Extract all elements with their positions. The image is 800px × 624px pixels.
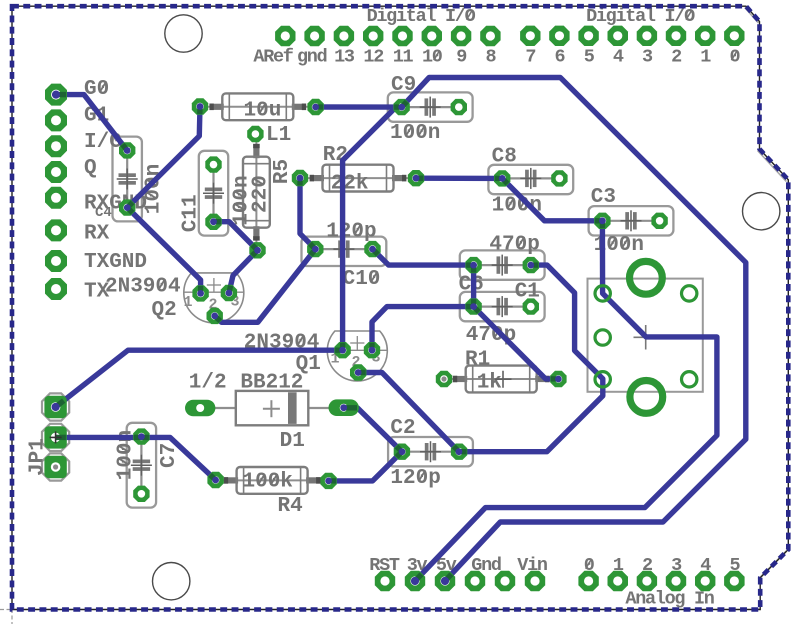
svg-text:8: 8 [485,47,496,68]
pad R5 bottom [249,242,265,258]
svg-text:C3: C3 [591,186,616,209]
wire C10 right to C6 left [373,249,474,265]
wire R2 left to C10 left [300,178,315,249]
svg-text:C11: C11 [180,194,203,232]
svg-text:9: 9 [456,47,466,68]
pads Q2 [192,285,208,301]
wire G0 to C5 top [56,95,127,151]
svg-text:6: 6 [555,47,566,68]
svg-text:2N3904: 2N3904 [105,276,181,299]
svg-text:Q2: Q2 [152,299,177,322]
svg-text:C4: C4 [95,205,112,221]
svg-text:100n: 100n [390,122,440,145]
origin marker bottom-left [0,596,25,624]
pad L1 / R5 top [247,126,263,142]
mounting hole bottom-left [153,563,190,600]
resistor R4 body [216,467,329,494]
svg-text:R5: R5 [271,159,294,184]
pads D1 (oval) [185,400,215,417]
wire Q2 pin2 to C10 left [215,249,316,322]
svg-text:1/2: 1/2 [189,371,227,394]
svg-text:Analog In: Analog In [625,589,713,610]
mounting hole top-left [165,15,202,52]
svg-text:5: 5 [584,47,595,68]
svg-text:C10: C10 [343,268,381,291]
pads C6 [465,257,481,273]
wire JP1 pin1 to Q1 pin1 [56,350,343,407]
svg-text:R4: R4 [278,495,303,518]
svg-text:D1: D1 [280,430,305,453]
svg-text:ARef: ARef [253,47,293,68]
wire R2 right to C8 left [416,175,502,181]
pads C2 [394,444,410,460]
pads C8 [494,170,510,186]
pads C10 [307,241,323,257]
wire C11 bottom to R5 bottom [214,222,258,251]
wire C6 right via trimmer pin to C2 right [459,265,603,452]
svg-text:Digital I/O: Digital I/O [586,6,695,27]
capacitor C6 outline [460,250,545,279]
svg-text:C2: C2 [390,417,415,440]
capacitor C11 outline [199,151,228,236]
wire C8 left to C3 left [502,178,602,220]
pads C9 [393,99,409,115]
svg-text:gnd: gnd [297,47,327,68]
svg-text:470p: 470p [489,234,539,257]
header pads analog row [578,571,598,591]
svg-text:3: 3 [642,47,653,68]
transistor Q1 outline [327,331,387,381]
left column pads G0-TX [45,84,67,106]
capacitor C1 outline [460,292,545,321]
connector JP1 outlines [42,393,69,420]
pads 10u [192,98,208,114]
svg-text:1: 1 [184,294,193,311]
svg-text:120p: 120p [326,221,376,244]
svg-text:0: 0 [729,47,740,68]
svg-text:10: 10 [422,47,443,68]
wire D1 right to C2 left [344,408,402,452]
mounting hole right [743,193,780,230]
gray drill dots [441,376,446,381]
svg-text:120p: 120p [390,467,440,490]
header pads Digital IO right group [520,26,540,46]
drill dots on connected pads [124,147,131,154]
wire C3 left via trimmer to 3v pad [415,221,717,581]
svg-text:10u: 10u [244,100,282,123]
capacitor C7 outline [127,423,156,508]
svg-text:BB212: BB212 [240,371,303,394]
wire C9 branch down to Q1 pin1 [343,107,396,350]
svg-text:100k: 100k [243,471,293,494]
svg-text:4: 4 [613,47,624,68]
svg-text:TXGND: TXGND [84,251,147,274]
resistor R5 body [243,134,270,250]
resistor R2 body [300,165,416,192]
capacitor C5 outline [113,137,142,222]
svg-text:1: 1 [700,47,711,68]
svg-text:13: 13 [334,47,355,68]
svg-text:220: 220 [250,175,273,213]
trace over pad overlap shading [56,92,66,97]
svg-text:11: 11 [393,47,414,68]
pads R1 [436,371,452,387]
capacitor C10 outline [302,237,387,266]
capacitor C8 outline [488,165,573,194]
JP1 pin2 origin cross [50,431,62,443]
svg-text:Digital I/O: Digital I/O [367,6,476,27]
pads C1 [465,298,481,314]
capacitor C3 outline [589,206,674,235]
svg-text:L1: L1 [266,124,291,147]
svg-text:1k: 1k [477,372,502,395]
pads Q1 [334,342,350,358]
svg-text:12: 12 [363,47,384,68]
silkscreen echo of board edge diagonals [745,8,787,580]
wire C1 left to R1 right [474,307,559,379]
resistor R1 body [444,366,558,393]
pads C7 [133,428,149,444]
svg-text:C8: C8 [492,146,517,169]
capacitor C2 outline [388,437,473,466]
wire Q1 pin3 to C1 left [372,307,474,351]
wire R5 bottom to Q2 pin3 [229,250,258,293]
pads C5 [119,142,135,158]
wire 10u right to C9 left [316,104,402,109]
wire Q1 pin2 to C2 right [358,373,459,452]
trimmer/pot U1 outline [588,279,703,392]
pads JP1 [44,396,66,418]
pads R4 [207,472,223,488]
wire 10u left to C5 bottom to Q2 pin1 [127,107,200,294]
capacitor C9 outline [388,92,473,121]
header pads power row [375,571,395,591]
header pads Digital IO left group [275,26,295,46]
wire C9 left around board right edge to 5v pad [402,78,746,582]
wire R4 right to C2 left [329,452,402,481]
inductor 10u body [200,93,316,120]
trimmer big pads [630,261,663,294]
pads R2 [292,170,308,186]
wire JP1 pin2 through C7 top to R4 left [56,437,216,480]
svg-text:R1: R1 [465,349,490,372]
transistor Q2 outline [184,273,244,323]
trimmer small pads [595,286,610,301]
svg-text:22k: 22k [331,173,369,196]
svg-text:Q: Q [84,157,97,180]
pads C3 [594,213,610,229]
svg-text:2: 2 [671,47,682,68]
svg-text:RX: RX [84,223,110,246]
diode D1 body [204,391,340,425]
pads C11 [205,156,221,172]
svg-text:7: 7 [525,47,535,68]
wire C6 left to C1 left [471,265,476,307]
